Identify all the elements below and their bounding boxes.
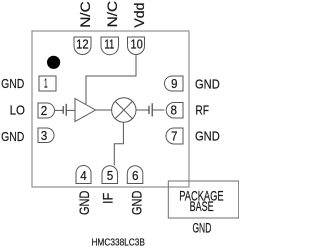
- pin 1 marker dot: [47, 56, 60, 69]
- capacitor C2: [149, 103, 152, 116]
- wire mixer to C2: [136, 109, 149, 111]
- svg-text:2: 2: [41, 104, 48, 118]
- pin 3: [38, 128, 54, 143]
- pin 1: [39, 76, 56, 91]
- svg-text:GND: GND: [77, 190, 92, 215]
- pin 4: [76, 166, 91, 184]
- pin 2: [38, 103, 55, 118]
- svg-text:GND: GND: [195, 128, 220, 143]
- pin 6: [127, 166, 143, 184]
- capacitor C1: [63, 104, 66, 116]
- svg-text:GND: GND: [195, 77, 220, 92]
- svg-text:N/C: N/C: [104, 1, 120, 28]
- pin 12: [74, 37, 91, 55]
- svg-text:HMC338LC3B: HMC338LC3B: [91, 237, 145, 249]
- wire mixer to IF pin5: [114, 122, 123, 165]
- pin 7: [166, 128, 183, 144]
- svg-text:GND: GND: [1, 76, 24, 91]
- svg-text:11: 11: [104, 37, 114, 51]
- svg-text:9: 9: [171, 77, 178, 91]
- svg-text:4: 4: [80, 169, 87, 183]
- svg-text:LO: LO: [10, 103, 25, 118]
- wire amplifier to mixer: [96, 109, 112, 111]
- svg-text:12: 12: [76, 37, 89, 51]
- pin 9: [165, 76, 184, 91]
- svg-text:1: 1: [44, 77, 48, 91]
- svg-text:Vdd: Vdd: [131, 3, 147, 28]
- mixer: [112, 98, 136, 122]
- pin 10: [128, 37, 145, 55]
- package outline: [32, 31, 189, 187]
- amplifier: [75, 99, 96, 122]
- svg-text:10: 10: [130, 37, 142, 51]
- svg-text:BASE: BASE: [190, 198, 214, 214]
- svg-text:RF: RF: [195, 103, 209, 118]
- svg-text:7: 7: [171, 129, 178, 143]
- svg-text:N/C: N/C: [77, 1, 93, 28]
- wire Vdd pin10 to amplifier: [86, 55, 136, 105]
- pin 8: [166, 103, 183, 119]
- svg-text:GND: GND: [192, 220, 211, 235]
- svg-text:5: 5: [107, 169, 114, 183]
- wire C2 to RF pin8: [152, 109, 164, 111]
- svg-text:3: 3: [41, 129, 48, 143]
- svg-text:GND: GND: [1, 129, 24, 144]
- svg-text:IF: IF: [100, 193, 115, 204]
- svg-text:6: 6: [132, 169, 139, 183]
- pin 11: [101, 37, 119, 55]
- wire C1 to amplifier: [66, 109, 75, 111]
- svg-text:8: 8: [171, 104, 178, 118]
- wire LO to C1: [55, 109, 64, 111]
- svg-text:GND: GND: [129, 190, 144, 215]
- pin 5: [102, 166, 118, 184]
- package base box: [168, 181, 238, 218]
